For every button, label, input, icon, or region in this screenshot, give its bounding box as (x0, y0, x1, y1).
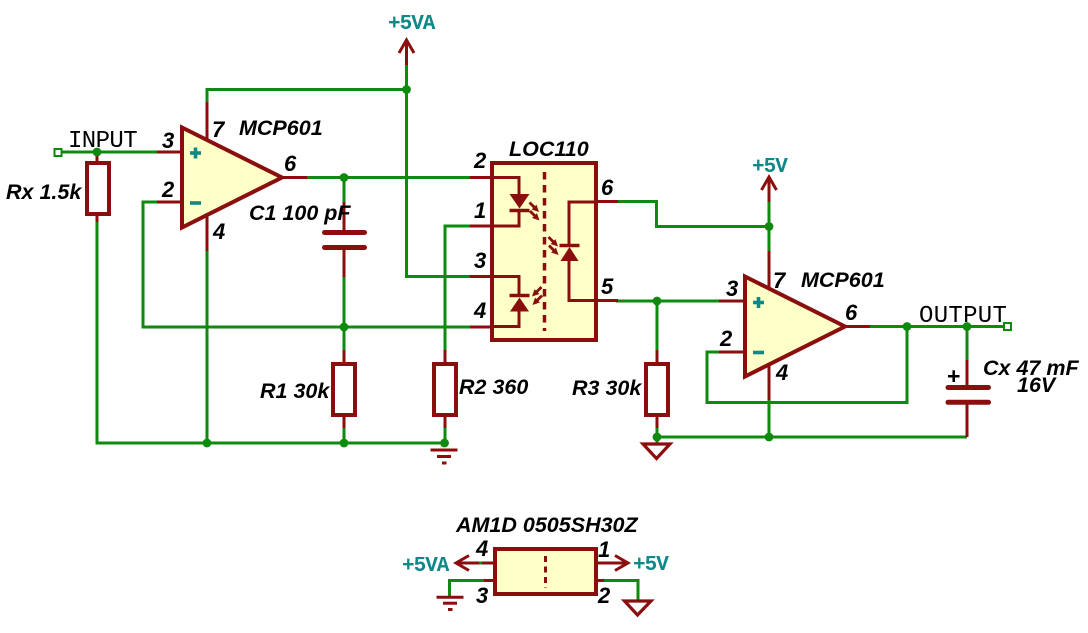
svg-text:+5VA: +5VA (402, 555, 450, 578)
opamp U1 pin 2 (157, 201, 184, 204)
wire: R3 top (656, 301, 659, 352)
svg-text:R2 360: R2 360 (459, 375, 528, 399)
junction node dots (93, 85, 972, 447)
wire: opamp1 pin2 feedback to LOC110 pin4 (143, 202, 472, 327)
resistor R3 (646, 350, 668, 428)
LOC110 pin 1 stub (470, 225, 492, 228)
wire: Cx top (966, 327, 969, 363)
wire: LOC110 pin5 to opamp2 pin3 (616, 300, 721, 303)
svg-text:2: 2 (161, 177, 175, 202)
resistor R2 (434, 350, 456, 428)
svg-text:AM1D 0505SH30Z: AM1D 0505SH30Z (455, 513, 639, 537)
wire: +5V arrow shaft green part (768, 200, 771, 253)
svg-text:+: + (947, 363, 960, 389)
svg-text:MCP601: MCP601 (239, 116, 323, 140)
LOC110 internal photodiode right (560, 202, 595, 301)
right photodiode receive arrows (549, 237, 559, 255)
wire: R1 top (343, 327, 346, 352)
capacitor C1 (325, 202, 365, 277)
LOC110 internal photodiode bottom (494, 277, 530, 327)
wire: C1 bottom to feedback bus (343, 275, 346, 327)
opamp U1 pin 7 (206, 102, 209, 142)
LOC110 pin 2 stub (470, 176, 492, 179)
svg-text:2: 2 (473, 148, 487, 173)
svg-text:7: 7 (773, 268, 787, 293)
ground open triangle below R3 (643, 444, 670, 459)
op-amp U4 minus mark (753, 351, 764, 355)
wire: right ground bus (657, 436, 967, 439)
op-amp U1 plus mark (190, 148, 201, 159)
ground earth below R2 (431, 450, 458, 463)
svg-text:LOC110: LOC110 (509, 137, 589, 161)
wire: R3 bottom to ground (656, 426, 659, 443)
svg-text:6: 6 (601, 175, 614, 200)
svg-text:C1 100 pF: C1 100 pF (249, 201, 351, 225)
wire: LOC110 pin6 to +5V node (616, 202, 769, 227)
AM1D pin 3 wire to earth ground (437, 581, 496, 610)
svg-text:4: 4 (775, 360, 788, 385)
AM1D pin 1 wire and +5V arrow right (596, 556, 628, 571)
svg-text:Rx 1.5k: Rx 1.5k (6, 180, 82, 204)
opamp U4 pin 3 (719, 300, 747, 303)
supply +5V arrow (762, 177, 777, 202)
opamp U1 pin 3 (157, 151, 184, 154)
opamp U4 pin 6 output (842, 325, 870, 328)
svg-text:+5V: +5V (633, 554, 669, 577)
opamp U4 pin 2 (719, 351, 747, 354)
svg-text:16V: 16V (1017, 373, 1057, 397)
AM1D divider dashed line (544, 556, 547, 588)
DC-DC converter U3 AM1D box (495, 549, 596, 594)
opamp U4 pin 7 (768, 251, 771, 291)
opamp U1 pin 4 (206, 214, 209, 251)
wire: output to OUTPUT terminal (868, 325, 1004, 328)
svg-text:4: 4 (473, 298, 486, 323)
svg-text:3: 3 (162, 128, 174, 153)
svg-text:5: 5 (601, 274, 614, 299)
wire: INPUT to pin3 (61, 151, 160, 154)
svg-text:6: 6 (284, 151, 297, 176)
op-amp U4 plus mark (753, 297, 764, 308)
svg-text:1: 1 (598, 537, 610, 562)
svg-text:+5V: +5V (752, 156, 788, 179)
optocoupler U2 LOC110 box (492, 163, 596, 340)
LOC110 pin 3 stub (470, 275, 492, 278)
bottom photodiode receive arrows (532, 287, 542, 305)
capacitor Cx polarized (948, 360, 989, 437)
wire: opamp2 feedback loop (707, 327, 907, 403)
svg-text:+5VA: +5VA (388, 13, 436, 36)
resistor R1 (333, 350, 355, 428)
LOC110 internal LED top (494, 178, 530, 227)
LED top emission arrows (530, 203, 540, 221)
svg-text:R1 30k: R1 30k (260, 379, 330, 403)
wire: LOC110 pin1 to R2 (445, 226, 472, 352)
resistor Rx (87, 154, 109, 222)
svg-text:6: 6 (845, 300, 858, 325)
LOC110 pin 4 stub (470, 326, 492, 329)
wire: +5VA vertical to LOC110 pin3 (407, 90, 473, 277)
svg-text:4: 4 (212, 219, 225, 244)
svg-text:4: 4 (475, 536, 488, 561)
svg-text:3: 3 (476, 583, 488, 608)
op-amp U4 triangle (745, 277, 845, 377)
svg-text:2: 2 (719, 326, 733, 351)
AM1D pin 2 wire to open triangle ground (596, 581, 651, 616)
svg-text:R3 30k: R3 30k (572, 376, 642, 400)
wire: C1 top (343, 178, 346, 205)
wire: +5VA arrow shaft green part (405, 63, 408, 90)
svg-text:7: 7 (212, 117, 226, 142)
AM1D pin 4 wire and +5VA arrow left (456, 556, 495, 571)
op-amp U1 minus mark (190, 201, 201, 205)
wire: opamp1 pin4 down to ground bus (206, 250, 209, 443)
wire: R1 bottom (343, 426, 346, 443)
op-amp U1 triangle (182, 128, 282, 228)
wire: R2 bottom to ground (444, 426, 447, 443)
LOC110 pin 5 stub (596, 299, 618, 302)
svg-text:2: 2 (597, 583, 611, 608)
wire: pin7 net to +5VA (207, 90, 407, 105)
LOC110 pin 6 stub (596, 200, 618, 203)
opamp U4 pin 4 (768, 363, 771, 400)
svg-text:OUTPUT: OUTPUT (919, 303, 1007, 330)
svg-text:1: 1 (474, 198, 486, 223)
INPUT terminal square (55, 149, 62, 156)
svg-text:MCP601: MCP601 (801, 268, 885, 292)
supply +5VA arrow top (399, 40, 414, 65)
svg-text:3: 3 (726, 276, 738, 301)
wire: ground bus bottom-left (97, 221, 445, 443)
LOC110 divider dashed line (543, 172, 547, 331)
svg-text:3: 3 (474, 248, 486, 273)
OUTPUT terminal square (1004, 323, 1011, 330)
opamp U1 pin 6 output (280, 176, 307, 179)
wire: opamp2 pin4 to ground bus (768, 399, 771, 437)
wire: opamp1 output to LOC110 pin2 (305, 176, 472, 179)
svg-text:INPUT: INPUT (68, 128, 137, 155)
